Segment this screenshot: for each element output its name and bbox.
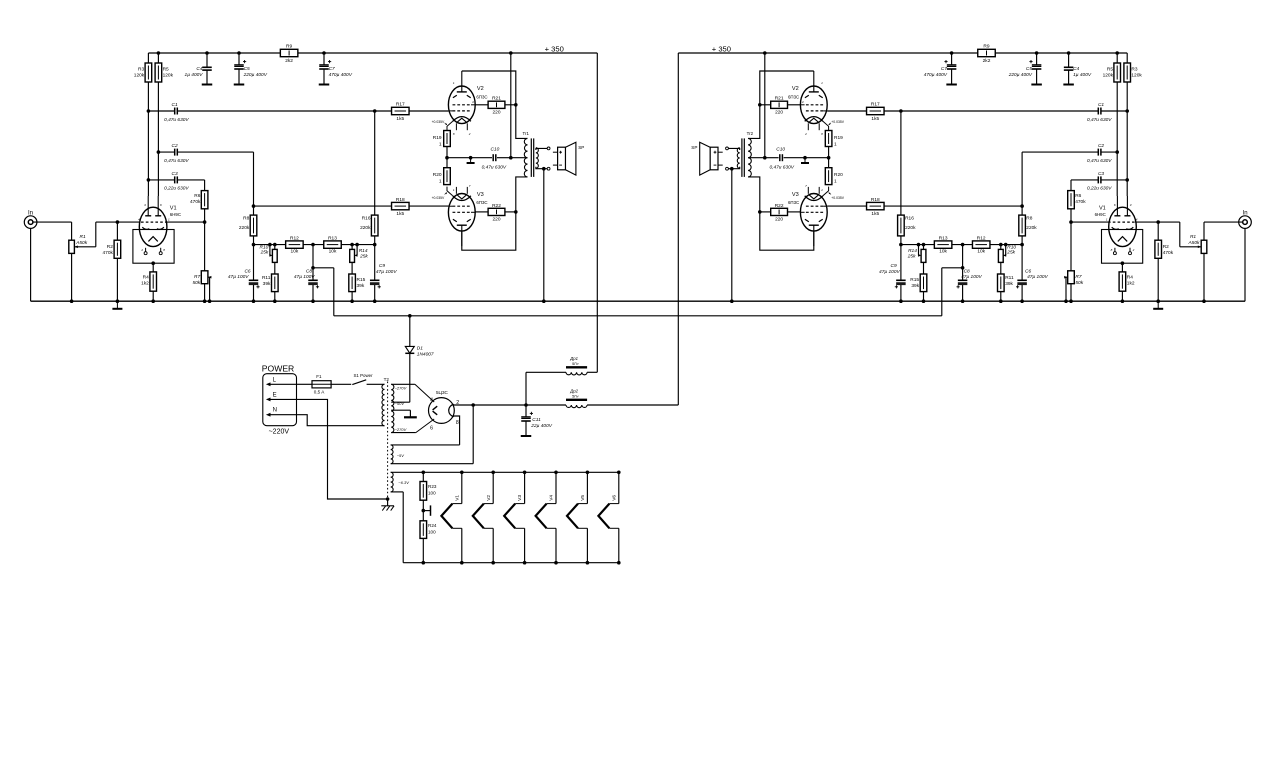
svg-text:10k: 10k — [291, 249, 299, 255]
svg-text:1k5: 1k5 — [396, 211, 404, 217]
resistor R6 (left ch) — [190, 191, 208, 223]
wire grid V1 (left ch) — [117, 221, 204, 223]
svg-text:470µ 400V: 470µ 400V — [329, 72, 353, 78]
svg-text:47µ 100V: 47µ 100V — [1027, 274, 1048, 280]
heater V2 — [473, 472, 493, 562]
svg-text:5Ц3С: 5Ц3С — [436, 390, 449, 395]
svg-text:R21: R21 — [775, 96, 784, 102]
svg-text:8: 8 — [456, 420, 459, 426]
svg-text:25k: 25k — [907, 253, 916, 259]
wire V2 plate to Tr1 primary top (left ch) — [462, 71, 528, 138]
svg-text:C1: C1 — [172, 102, 178, 108]
svg-text:C5: C5 — [1026, 66, 1032, 72]
svg-text:V4: V4 — [549, 495, 555, 501]
resistor R24 — [420, 511, 437, 563]
resistor R3 (left ch) — [134, 53, 152, 196]
svg-text:220: 220 — [775, 109, 783, 115]
svg-text:6П3С: 6П3С — [788, 94, 799, 99]
svg-text:2: 2 — [1132, 248, 1135, 252]
capacitor C11 — [521, 372, 553, 436]
trimmer R10 (left ch) — [259, 244, 277, 274]
wire jack to pot (right ch) — [1204, 222, 1243, 240]
resistor R18 (right ch) — [827, 197, 1022, 217]
svg-text:R18: R18 — [871, 197, 880, 203]
svg-text:47µ 100V: 47µ 100V — [376, 269, 397, 275]
svg-text:D1: D1 — [417, 345, 423, 351]
svg-text:39k: 39k — [263, 281, 271, 287]
svg-text:R24: R24 — [428, 523, 437, 528]
svg-text:6: 6 — [430, 426, 433, 432]
svg-text:R18: R18 — [396, 197, 405, 203]
node heater bus top dots — [422, 471, 621, 475]
ground symbol right — [1153, 301, 1163, 309]
svg-text:470k: 470k — [190, 199, 201, 205]
svg-text:0,47u 630V: 0,47u 630V — [482, 165, 507, 171]
choke Dr1 — [526, 356, 597, 375]
svg-text:R7: R7 — [1075, 274, 1081, 280]
trimmer R7 (left ch) — [192, 220, 211, 301]
tube V3 6P3S (left ch) — [432, 184, 488, 246]
svg-text:R19: R19 — [433, 135, 442, 141]
fuse F1 0,5A — [297, 374, 332, 395]
svg-text:R15: R15 — [910, 277, 919, 283]
wire V2 plate to Tr1 primary top (right ch) — [748, 71, 814, 138]
svg-text:V6: V6 — [611, 495, 617, 501]
wire splitter node row (left ch) — [254, 244, 375, 246]
capacitor C5 (left ch) — [234, 53, 268, 85]
wire ground bus — [31, 300, 1246, 302]
capacitor C10 (left ch) — [445, 147, 512, 171]
svg-text:0,47u 630V: 0,47u 630V — [164, 158, 189, 164]
svg-text:In: In — [1243, 211, 1248, 217]
capacitor C8 (left ch) — [294, 245, 334, 316]
svg-text:R13: R13 — [939, 236, 948, 242]
capacitor C7 (right ch) — [924, 53, 957, 85]
wire +350 rail (left ch) — [148, 52, 597, 54]
svg-text:R23: R23 — [428, 484, 437, 489]
svg-text:R1: R1 — [1190, 234, 1196, 240]
svg-text:1µ 400V: 1µ 400V — [185, 72, 204, 78]
resistor R2 (right ch) — [1155, 220, 1174, 301]
svg-text:N: N — [273, 408, 277, 414]
svg-text:R16: R16 — [905, 215, 914, 221]
svg-text:1k5: 1k5 — [871, 116, 879, 122]
svg-text:POWER: POWER — [262, 363, 294, 373]
svg-text:V1: V1 — [1099, 206, 1106, 212]
svg-text:SP: SP — [578, 145, 584, 150]
svg-text:1µ 400V: 1µ 400V — [1073, 72, 1092, 78]
svg-text:~270V: ~270V — [395, 385, 407, 390]
svg-text:V3: V3 — [517, 495, 523, 501]
heater V4 — [536, 472, 556, 562]
svg-text:220: 220 — [492, 109, 500, 115]
wire V3 plate to Tr1 primary bottom (right ch) — [748, 177, 814, 250]
svg-text:39k: 39k — [911, 283, 919, 289]
resistor R8 (right ch) — [1019, 204, 1038, 244]
svg-text:470k: 470k — [1163, 250, 1174, 256]
resistor R9 (left ch) — [280, 43, 298, 64]
svg-text:~270V: ~270V — [395, 427, 407, 432]
svg-text:47µ 100V: 47µ 100V — [294, 274, 315, 280]
capacitor C5 (right ch) — [1008, 53, 1042, 85]
resistor R6 (right ch) — [1068, 191, 1087, 223]
svg-text:100: 100 — [428, 490, 436, 495]
svg-text:~6.3V: ~6.3V — [398, 480, 409, 485]
svg-text:R4: R4 — [1127, 275, 1133, 281]
svg-text:5Гн: 5Гн — [572, 361, 579, 366]
svg-text:R5: R5 — [1107, 67, 1113, 73]
svg-text:0,47u 630V: 0,47u 630V — [1087, 117, 1112, 123]
svg-text:10k: 10k — [329, 249, 337, 255]
svg-text:0,47u 630V: 0,47u 630V — [164, 117, 189, 123]
wire grid V1 (right ch) — [1071, 221, 1158, 223]
svg-text:6П3С: 6П3С — [476, 94, 487, 99]
svg-text:120k: 120k — [1103, 73, 1114, 79]
heater V3 — [504, 472, 524, 562]
svg-text:C11: C11 — [532, 417, 541, 423]
svg-text:V1: V1 — [454, 495, 460, 501]
tube V2 6P3S (left ch) — [432, 71, 488, 136]
resistor R9 (right ch) — [978, 43, 996, 64]
wire rectifier B+ (pin 2) — [453, 403, 526, 407]
capacitor C2 (left ch) — [157, 143, 254, 206]
svg-text:6П3С: 6П3С — [788, 200, 799, 205]
capacitor C2 (right ch) — [1022, 143, 1119, 206]
svg-text:120k: 120k — [134, 73, 145, 79]
svg-text:+0.035V: +0.035V — [432, 196, 445, 200]
wire E to chassis — [297, 399, 387, 499]
capacitor C8 (right ch) — [942, 245, 983, 316]
trimmer R14 (right ch) — [907, 245, 926, 274]
svg-text:C3: C3 — [172, 171, 178, 177]
svg-text:0,5 A: 0,5 A — [314, 390, 325, 395]
svg-text:R8: R8 — [243, 215, 249, 221]
svg-text:+ 350: + 350 — [712, 44, 731, 53]
svg-text:R9: R9 — [286, 43, 292, 49]
resistor R12 (right ch) — [972, 236, 990, 255]
wire Tr1 secondary to speaker (right ch) — [726, 147, 740, 171]
svg-text:V1: V1 — [170, 206, 177, 212]
trimmer R10 (right ch) — [998, 244, 1016, 274]
resistor R3 (right ch) — [1124, 53, 1143, 196]
svg-text:R20: R20 — [834, 172, 843, 178]
resistor R5 (right ch) — [1103, 53, 1121, 196]
svg-text:0,22u 630V: 0,22u 630V — [164, 186, 189, 192]
svg-text:R12: R12 — [290, 236, 299, 242]
svg-text:+ 350: + 350 — [545, 44, 564, 53]
svg-text:470k: 470k — [102, 250, 113, 256]
svg-text:120k: 120k — [1131, 73, 1142, 79]
capacitor C9 (right ch) — [879, 245, 906, 302]
resistor R22 (left ch) — [475, 203, 517, 222]
svg-text:SP: SP — [691, 145, 697, 150]
svg-text:22µ 400V: 22µ 400V — [530, 423, 552, 429]
wire right +350 drop — [677, 53, 679, 405]
resistor R21 (right ch) — [758, 96, 800, 116]
svg-text:R19: R19 — [834, 135, 843, 141]
tube V2 6P3S (right ch) — [788, 71, 845, 136]
tube V3 6P3S (right ch) — [788, 184, 845, 246]
svg-text:C8: C8 — [964, 268, 970, 274]
svg-text:220k: 220k — [1026, 225, 1037, 231]
svg-text:R6: R6 — [194, 193, 200, 199]
potentiometer R1 (left ch) — [69, 222, 118, 301]
transformer Tr2 (right ch) — [737, 131, 753, 177]
svg-text:470µ 400V: 470µ 400V — [924, 72, 948, 78]
svg-text:R9: R9 — [983, 43, 989, 49]
svg-text:120k: 120k — [163, 73, 174, 79]
wire heater bus top — [391, 471, 619, 473]
svg-text:C2: C2 — [172, 143, 178, 149]
wire V3 plate to Tr1 primary bottom (left ch) — [462, 177, 528, 250]
wire jack ground (right ch) — [1244, 228, 1246, 301]
svg-text:1: 1 — [834, 178, 837, 184]
svg-text:R4: R4 — [143, 275, 149, 281]
svg-text:C4: C4 — [196, 66, 202, 72]
connector POWER ~220V — [262, 363, 297, 435]
capacitor C3 (left ch) — [147, 171, 205, 192]
svg-text:R17: R17 — [396, 102, 405, 108]
resistor R15 (right ch) — [910, 274, 927, 301]
choke Dr2 — [526, 388, 678, 407]
svg-text:6Н9С: 6Н9С — [170, 212, 181, 217]
svg-text:25k: 25k — [260, 250, 269, 256]
svg-text:10k: 10k — [939, 249, 947, 255]
svg-text:C3: C3 — [1098, 171, 1104, 177]
capacitor C6 (right ch) — [1016, 245, 1049, 302]
svg-text:R7: R7 — [194, 274, 200, 280]
svg-text:C4: C4 — [1073, 66, 1079, 72]
svg-text:220µ 400V: 220µ 400V — [1008, 72, 1033, 78]
tube V1 6N9S (left ch) — [133, 196, 181, 265]
svg-text:R22: R22 — [492, 203, 501, 209]
svg-text:C9: C9 — [891, 263, 897, 269]
svg-text:47µ 100V: 47µ 100V — [228, 274, 249, 280]
svg-text:C1: C1 — [1098, 102, 1104, 108]
resistor R15 (left ch) — [349, 274, 366, 301]
svg-text:220k: 220k — [360, 225, 371, 231]
svg-text:1k5: 1k5 — [871, 211, 879, 217]
svg-text:2: 2 — [468, 132, 471, 136]
svg-text:R12: R12 — [977, 236, 986, 242]
resistor R16 (left ch) — [360, 215, 378, 245]
svg-text:+0.035V: +0.035V — [831, 196, 844, 200]
resistor R11 (right ch) — [998, 274, 1014, 301]
label +350 (left ch) — [545, 44, 564, 53]
svg-text:0,22u 630V: 0,22u 630V — [1087, 186, 1112, 192]
resistor R18 (left ch) — [254, 197, 449, 217]
resistor R5 (left ch) — [155, 53, 174, 196]
svg-text:V2: V2 — [486, 495, 492, 501]
resistor R2 (left ch) — [102, 220, 120, 301]
resistor R4 (right ch) — [1119, 263, 1135, 301]
transformer T2 5V winding — [391, 405, 474, 464]
wire C1 to R16 (left ch) — [374, 111, 376, 215]
wire speaker return to ground bus (left ch) — [542, 169, 546, 303]
svg-text:39k: 39k — [1005, 281, 1013, 287]
svg-text:6П3С: 6П3С — [476, 200, 487, 205]
svg-text:R11: R11 — [262, 275, 271, 281]
svg-text:39k: 39k — [357, 283, 365, 289]
svg-text:47µ 100V: 47µ 100V — [879, 269, 900, 275]
input jack In (right ch) — [1239, 211, 1252, 229]
svg-text:S1 Power: S1 Power — [354, 373, 374, 378]
svg-text:R2: R2 — [1163, 244, 1169, 250]
capacitor C1 (left ch) — [147, 102, 377, 123]
svg-text:C9: C9 — [379, 263, 385, 269]
heater V1 — [441, 472, 461, 562]
resistor R21 (left ch) — [475, 96, 517, 116]
wire left +350 drop — [596, 53, 598, 372]
speaker SP (left ch) — [553, 142, 584, 175]
node ground bus dots — [70, 299, 1206, 303]
svg-text:T2: T2 — [384, 377, 390, 382]
svg-text:1k2: 1k2 — [1127, 281, 1135, 287]
resistor R17 (right ch) — [827, 102, 901, 122]
svg-text:R15: R15 — [357, 277, 366, 283]
svg-text:C10: C10 — [776, 147, 785, 153]
svg-text:V3: V3 — [792, 192, 799, 198]
svg-text:2: 2 — [804, 132, 807, 136]
label +350 (right ch) — [712, 44, 731, 53]
svg-text:R8: R8 — [1026, 215, 1032, 221]
wire humdinger tap — [422, 505, 431, 515]
trimmer R7 (right ch) — [1064, 220, 1084, 301]
svg-text:220: 220 — [492, 216, 500, 222]
svg-text:V3: V3 — [477, 192, 484, 198]
svg-text:C6: C6 — [244, 268, 250, 274]
resistor R13 (right ch) — [934, 236, 952, 255]
svg-text:220: 220 — [775, 216, 783, 222]
heater V6 — [598, 472, 618, 562]
transformer Tr1 (left ch) — [523, 131, 539, 177]
wire +350 to Tr1 center tap (right ch) — [748, 53, 765, 158]
wire jack to pot (left ch) — [33, 222, 72, 240]
svg-text:C10: C10 — [491, 147, 500, 153]
svg-text:V2: V2 — [792, 86, 799, 92]
svg-text:220µ 400V: 220µ 400V — [243, 72, 268, 78]
resistor R19 (right ch) — [825, 131, 843, 158]
svg-text:25k: 25k — [1006, 250, 1015, 256]
resistor R8 (left ch) — [239, 204, 257, 244]
wire +350 rail (right ch) — [678, 52, 1127, 54]
speaker SP (right ch) — [691, 142, 722, 175]
svg-text:50k: 50k — [1075, 280, 1083, 286]
svg-text:C2: C2 — [1098, 143, 1104, 149]
svg-text:C5: C5 — [244, 66, 250, 72]
svg-text:2: 2 — [140, 248, 143, 252]
svg-text:In: In — [28, 211, 33, 217]
capacitor C4 (left ch) — [185, 53, 213, 85]
resistor R19 (left ch) — [433, 131, 451, 158]
svg-text:1k5: 1k5 — [396, 116, 404, 122]
resistor R20 (right ch) — [825, 158, 843, 185]
node bias bus dot D1 — [408, 314, 412, 318]
svg-text:C7: C7 — [941, 66, 947, 72]
resistor R11 (left ch) — [262, 274, 278, 301]
svg-text:R21: R21 — [492, 96, 501, 102]
capacitor C7 (left ch) — [319, 53, 353, 85]
transformer T2 HV winding — [391, 384, 434, 432]
wire splitter node row (right ch) — [901, 244, 1022, 246]
resistor R17 (left ch) — [375, 102, 449, 122]
svg-text:R16: R16 — [362, 215, 371, 221]
svg-text:R17: R17 — [871, 102, 880, 108]
capacitor C3 (right ch) — [1071, 171, 1129, 192]
svg-text:R14: R14 — [359, 248, 368, 254]
transformer T2 — [382, 377, 389, 499]
resistor R13 (left ch) — [324, 236, 342, 255]
svg-text:V5: V5 — [580, 495, 586, 501]
svg-text:10k: 10k — [977, 249, 985, 255]
resistor R4 (left ch) — [141, 263, 156, 301]
svg-text:R2: R2 — [107, 244, 113, 250]
svg-text:R22: R22 — [775, 203, 784, 209]
wire +350 to Tr1 center tap (left ch) — [511, 53, 528, 158]
svg-text:R3: R3 — [1131, 67, 1137, 73]
chassis ground — [381, 497, 394, 510]
tube V1 6N9S (right ch) — [1095, 196, 1143, 265]
svg-text:+0.035V: +0.035V — [831, 120, 844, 124]
svg-text:E: E — [273, 392, 277, 398]
svg-text:Tr2: Tr2 — [747, 131, 754, 136]
svg-text:C8: C8 — [306, 268, 312, 274]
svg-text:1N4007: 1N4007 — [417, 351, 434, 357]
input jack In (left ch) — [24, 211, 37, 229]
svg-text:A50k: A50k — [75, 240, 88, 246]
svg-text:R1: R1 — [80, 234, 86, 240]
svg-text:R14: R14 — [908, 248, 917, 254]
svg-text:F1: F1 — [316, 374, 322, 379]
node heater bus bottom dots — [422, 561, 621, 565]
svg-text:0,47u 630V: 0,47u 630V — [1087, 158, 1112, 164]
svg-text:5Гн: 5Гн — [572, 393, 579, 398]
svg-text:Tr1: Tr1 — [523, 131, 530, 136]
svg-text:R20: R20 — [433, 172, 442, 178]
potentiometer R1 (right ch) — [1158, 222, 1207, 301]
svg-text:V2: V2 — [477, 86, 484, 92]
svg-text:2k2: 2k2 — [983, 58, 991, 64]
node rail junctions (right ch) — [763, 51, 1119, 55]
svg-text:220k: 220k — [239, 225, 250, 231]
resistor R16 (right ch) — [898, 215, 917, 245]
rectifier tube 5Ts3S — [429, 390, 460, 432]
svg-text:R3: R3 — [138, 67, 144, 73]
heater V5 — [567, 472, 587, 562]
svg-text:R11: R11 — [1005, 275, 1014, 281]
svg-text:R13: R13 — [328, 236, 337, 242]
capacitor C9 (left ch) — [370, 245, 397, 302]
svg-text:6Н9С: 6Н9С — [1095, 212, 1106, 217]
transformer T2 6.3V winding — [391, 472, 409, 562]
svg-text:R10: R10 — [1007, 244, 1016, 250]
svg-text:470k: 470k — [1075, 199, 1086, 205]
node row junctions (right ch) — [899, 243, 1024, 247]
capacitor C10 (right ch) — [763, 147, 830, 171]
resistor R23 — [420, 472, 437, 510]
svg-text:R5: R5 — [163, 67, 169, 73]
capacitor C6 (left ch) — [228, 245, 260, 302]
node rail junctions (left ch) — [157, 51, 513, 55]
wire heater bus bottom — [403, 562, 619, 564]
svg-text:4: 4 — [430, 397, 433, 403]
svg-text:R6: R6 — [1075, 193, 1081, 199]
svg-text:~50V: ~50V — [395, 401, 405, 406]
svg-text:~220V: ~220V — [269, 428, 290, 435]
resistor R22 (right ch) — [758, 203, 800, 222]
wire N to primary — [297, 415, 385, 426]
capacitor C4 (right ch) — [1063, 53, 1092, 85]
